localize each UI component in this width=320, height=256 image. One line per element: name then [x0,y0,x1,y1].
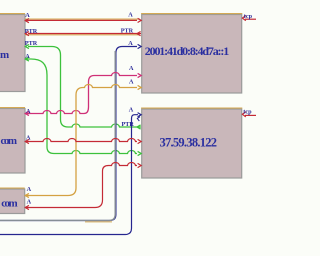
node box L2 (middle-left, domain ...com) [0,108,25,173]
wire red A (L1 to R1) [25,18,141,22]
node box L3 (bottom-left, domain ...com) [0,188,25,213]
wire green PTR (R2 to L1, via x=60.5) [25,44,141,129]
svg-text:A: A [27,199,32,206]
node box R2 (IPv4 37.59.38.122) [141,108,242,178]
svg-text:PTR: PTR [25,40,38,47]
svg-text:A: A [129,78,134,85]
svg-text:A: A [27,186,32,193]
svg-text:A: A [128,40,133,47]
wire tan PTR pair (below red PTR) [25,34,140,36]
svg-text:PTR: PTR [121,27,134,34]
svg-text:PTR: PTR [122,121,135,128]
wire tan A (L1 to R1, parallel above red) [25,18,140,20]
svg-text:m: m [0,49,9,61]
svg-text:A: A [26,108,31,115]
svg-text:A: A [26,135,31,142]
svg-text:tcp: tcp [244,13,253,20]
wire red A (L3 to R2, via x=102.5) [25,163,141,210]
wire red PTR (R1 to L1) [25,32,141,36]
svg-text:A: A [25,12,30,19]
node box R1 (IPv6 2001:41d0:8:4d7a::1) [141,14,242,93]
svg-text:37.59.38.122: 37.59.38.122 [160,135,218,149]
svg-text:PTR: PTR [25,28,38,35]
wire tcp red (R2 top-right corner) [242,112,256,117]
svg-text:com: com [1,197,18,209]
svg-text:A: A [129,107,134,114]
wire gray (down x=115.3, exits left at y=220.5) [0,51,115,220]
svg-text:tcp: tcp [243,108,252,115]
svg-text:2001:41d0:8:4d7a::1: 2001:41d0:8:4d7a::1 [145,44,229,58]
wire tcp red (R1 top-right corner) [242,16,256,21]
edge labels (navy, tiny bold serif) [25,12,253,206]
svg-text:A: A [129,65,134,72]
wire tan shadow under gray [85,221,112,223]
wire orange A (L3 to R1, via x=76) [25,85,141,198]
wire navy A/PTR (R2 down x=131.5, exits left at y=234.5) [0,113,141,235]
svg-text:A: A [25,53,30,60]
svg-text:com: com [1,135,18,147]
node box L1 (top-left, domain ...m) [0,14,25,92]
wire pink A (L2 to R1, via x=88.5) [25,73,141,116]
wire red A (L2 to R2) [25,139,141,144]
wire green A (L1 to R2, via x=47) [25,57,141,156]
svg-text:A: A [128,12,133,19]
wire navy A (R1 down behind gray, exits left at y=220.9) [0,44,141,220]
